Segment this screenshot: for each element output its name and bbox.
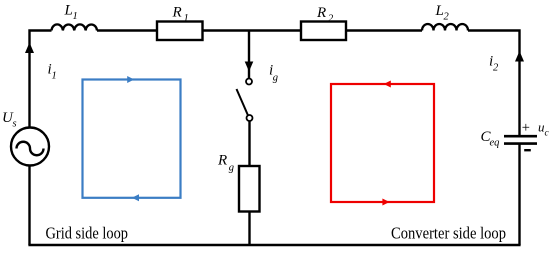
resistor R1 bbox=[157, 22, 203, 41]
label Us bbox=[2, 110, 17, 130]
label Ceq bbox=[481, 129, 500, 149]
svg-text:R: R bbox=[172, 5, 182, 21]
wire switch to Rg bbox=[248, 121, 250, 166]
switch blade bbox=[237, 89, 249, 115]
resistor R2 bbox=[301, 22, 346, 41]
svg-text:2: 2 bbox=[493, 63, 499, 74]
inductor L2 bbox=[422, 24, 468, 30]
switch upper contact bbox=[246, 79, 252, 85]
label ig bbox=[269, 63, 278, 84]
label R2 bbox=[316, 5, 334, 25]
svg-text:g: g bbox=[273, 73, 278, 84]
svg-text:1: 1 bbox=[52, 71, 57, 82]
svg-text:Grid side loop: Grid side loop bbox=[46, 224, 129, 243]
switch lower contact bbox=[247, 115, 253, 121]
resistor Rg bbox=[239, 166, 260, 212]
current arrow i1 (up) bbox=[25, 43, 34, 54]
svg-text:R: R bbox=[217, 153, 227, 169]
voltage source Us circle bbox=[11, 128, 49, 166]
svg-text:2: 2 bbox=[444, 12, 450, 23]
svg-text:R: R bbox=[316, 5, 326, 21]
wire top-right corner bbox=[468, 31, 520, 137]
svg-text:c: c bbox=[545, 129, 550, 139]
grid side loop (blue) bbox=[83, 80, 181, 198]
wire right vertical lower bbox=[518, 144, 520, 245]
svg-text:2: 2 bbox=[328, 14, 334, 25]
svg-text:L: L bbox=[64, 3, 73, 19]
sine wave inside source bbox=[17, 142, 44, 156]
converter side loop (red) bbox=[331, 84, 434, 202]
svg-text:1: 1 bbox=[184, 13, 189, 24]
label L2 bbox=[435, 3, 450, 23]
svg-text:1: 1 bbox=[73, 11, 78, 22]
current arrow ig (down) bbox=[245, 62, 254, 72]
wire Rg to bottom bbox=[248, 212, 250, 246]
blue loop arrow top (right) bbox=[127, 76, 134, 83]
label Rg bbox=[217, 153, 234, 174]
label + uc bbox=[522, 120, 550, 139]
wire top-left vertical (left branch) bbox=[30, 31, 52, 129]
red loop arrow top (left) bbox=[384, 81, 391, 88]
capacitor Ceq bottom plate bbox=[504, 142, 537, 145]
wire R2 to L2 bbox=[346, 29, 422, 31]
red loop arrow bottom (right) bbox=[382, 199, 389, 206]
label R1 bbox=[172, 5, 189, 25]
label L1 bbox=[64, 3, 78, 23]
label i2 bbox=[489, 54, 499, 74]
wire R1 to R2 bbox=[203, 29, 302, 31]
current arrow i2 (up) bbox=[515, 51, 524, 62]
label i1 bbox=[48, 62, 57, 82]
label - (minus) bbox=[524, 149, 531, 151]
wire source to bottom bbox=[28, 166, 30, 246]
bottom wire bbox=[28, 244, 520, 246]
capacitor Ceq top plate bbox=[504, 135, 537, 138]
svg-text:eq: eq bbox=[490, 138, 500, 149]
svg-text:+: + bbox=[522, 120, 530, 136]
inductor L1 bbox=[52, 24, 98, 30]
svg-text:Converter side loop: Converter side loop bbox=[391, 224, 506, 243]
svg-text:s: s bbox=[13, 119, 17, 130]
svg-text:g: g bbox=[229, 163, 234, 174]
middle branch wire from top junction bbox=[248, 31, 250, 79]
svg-text:L: L bbox=[435, 3, 444, 19]
blue loop arrow bottom (left) bbox=[132, 194, 139, 201]
wire L1 to R1 bbox=[97, 29, 157, 31]
